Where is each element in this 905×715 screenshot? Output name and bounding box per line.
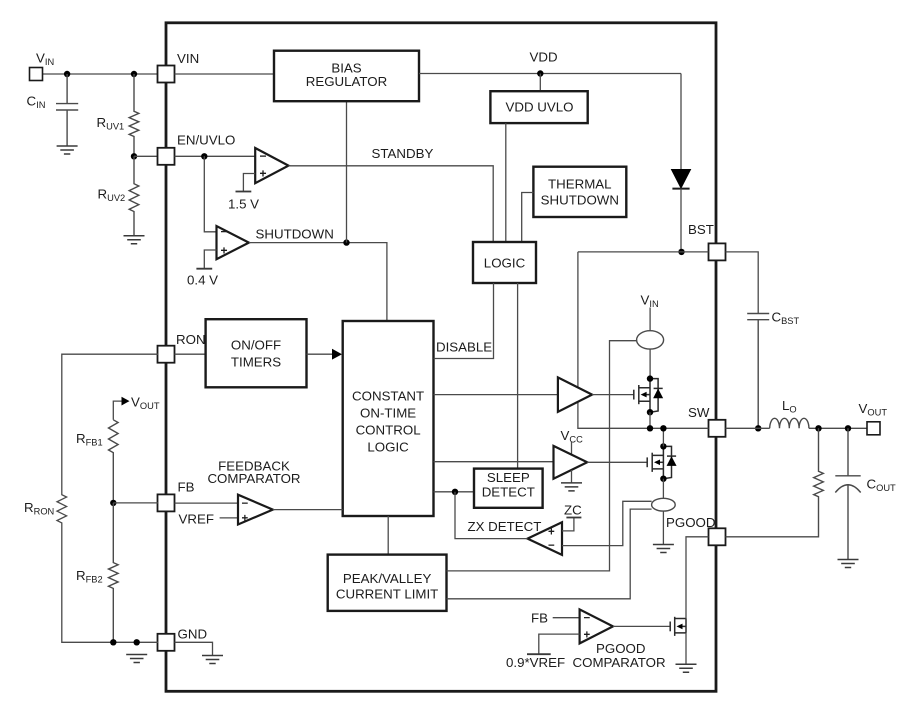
resistor RFB1 [109, 420, 119, 503]
svg-text:SHUTDOWN: SHUTDOWN [541, 193, 619, 208]
svg-text:BST: BST [688, 222, 714, 237]
svg-text:0.4 V: 0.4 V [187, 273, 218, 288]
ground below bottom rail [126, 655, 147, 663]
inductor LO [770, 418, 809, 428]
svg-text:TIMERS: TIMERS [231, 355, 281, 370]
wire peak/valley upper sense [447, 341, 637, 571]
node Q1 source [647, 409, 653, 415]
svg-text:FB: FB [178, 480, 195, 495]
svg-text:ON-TIME: ON-TIME [360, 405, 416, 420]
op-amp U3 feedback comparator [238, 495, 273, 525]
wire GND pin to external ground [175, 642, 213, 655]
wire BST pin to CBST [726, 252, 759, 313]
wire Q1 source to SW [649, 412, 651, 428]
transistor Q2 low-side NMOS [647, 446, 676, 478]
svg-text:SHUTDOWN: SHUTDOWN [256, 227, 334, 242]
wire SW rail [650, 427, 709, 429]
reference 0.9*VREF bar [527, 653, 551, 655]
wire DISABLE from LOGIC to COT [434, 283, 494, 359]
svg-text:−: − [584, 612, 591, 624]
wire VDD to VDD UVLO [539, 74, 541, 92]
svg-text:LOGIC: LOGIC [367, 440, 409, 455]
driver low side triangle [554, 446, 588, 479]
capacitor CBST [747, 314, 769, 429]
wire RON pin to ON/OFF TIMERS [175, 353, 206, 355]
reference 0.4V bar [196, 268, 212, 270]
ground below RUV2 [124, 236, 145, 244]
node CBST SW junction [755, 425, 761, 431]
wire U5 plus input stub [539, 634, 580, 654]
wire STANDBY from U1 to LOGIC [289, 166, 494, 242]
svg-text:VDD: VDD [530, 50, 558, 65]
node sleep zx junction [452, 489, 458, 495]
capacitor COUT [835, 428, 860, 559]
wire Q3 source to ground [685, 633, 687, 664]
ground right of GND pin [202, 656, 223, 664]
ground below Q3 [676, 664, 697, 672]
svg-text:PEAK/VALLEY: PEAK/VALLEY [343, 571, 432, 586]
node bottom rail RFB2 junction [110, 639, 116, 645]
block COT constant on-time control logic [343, 321, 434, 516]
svg-text:+: + [242, 513, 249, 525]
wire VCC stub to driver [571, 442, 573, 455]
terminal VIN external square [30, 68, 43, 81]
diode Q2 body [667, 457, 676, 465]
arrow Q3 body [677, 624, 683, 630]
block BIAS REGULATOR [274, 51, 419, 101]
svg-text:+: + [260, 166, 267, 180]
svg-text:CONSTANT: CONSTANT [352, 388, 424, 403]
wire VIN to sense ellipse [649, 308, 651, 331]
svg-text:−: − [242, 498, 249, 510]
svg-text:−: − [260, 149, 267, 163]
svg-text:THERMAL: THERMAL [548, 177, 612, 192]
svg-text:GND: GND [178, 627, 208, 642]
transistor Q3 PGOOD NMOS [670, 617, 686, 636]
svg-text:COMPARATOR: COMPARATOR [207, 471, 300, 486]
IC boundary box [166, 23, 716, 692]
wire U1 plus input stub [243, 174, 255, 192]
node FB junction [110, 500, 116, 506]
resistor pull-up PGOOD [726, 428, 824, 537]
wire BST down to high-side driver and SW [578, 252, 650, 428]
svg-text:FB: FB [531, 611, 548, 626]
node SW Q2 [660, 425, 666, 431]
node EN junction left [131, 153, 137, 159]
svg-text:−: − [221, 225, 228, 239]
svg-text:+: + [584, 629, 591, 641]
wire SW pin to VOUT [726, 427, 868, 429]
wire COT to low-side driver [434, 461, 554, 463]
svg-text:CONTROL: CONTROL [356, 423, 421, 438]
ground below Q2 [653, 545, 674, 553]
diode D1 wire from VDD [680, 74, 682, 170]
svg-text:LOGIC: LOGIC [484, 256, 526, 271]
svg-text:CURRENT LIMIT: CURRENT LIMIT [336, 586, 438, 601]
wire U3 output to COT [273, 509, 343, 511]
current sense ellipse low side [652, 498, 676, 511]
wire COT to high-side driver [434, 394, 558, 396]
svg-text:SLEEP: SLEEP [487, 470, 530, 485]
wire ellipse to Q1 drain [649, 349, 651, 379]
op-amp U5 PGOOD comparator [580, 609, 613, 643]
svg-text:STANDBY: STANDBY [372, 146, 434, 161]
arrow Q1 body [641, 392, 647, 398]
pin VIN [158, 66, 175, 83]
wire peak/valley lower sense [447, 509, 652, 599]
wire Q3 drain to PGOOD pin [686, 537, 709, 619]
node COUT junction [845, 425, 851, 431]
block LOGIC [473, 242, 536, 283]
node VDD junction [537, 70, 543, 76]
wire EN pin to comparator U1 [175, 155, 256, 157]
svg-text:VREF: VREF [179, 512, 214, 527]
svg-text:+: + [548, 527, 555, 539]
node SHUTDOWN bias junction [343, 239, 349, 245]
wire FB junction to pin [113, 502, 158, 504]
svg-text:PGOOD: PGOOD [596, 641, 646, 656]
svg-text:VDD UVLO: VDD UVLO [506, 100, 574, 115]
pin FB [158, 494, 175, 511]
svg-text:ZX DETECT: ZX DETECT [468, 519, 542, 534]
wire FB pin to comparator U3 [175, 502, 239, 504]
pin GND [158, 634, 175, 651]
wire VIN external [42, 73, 159, 75]
node CIN junction [64, 71, 70, 77]
wire EN junction to pin [134, 155, 158, 157]
transistor Q1 high-side NMOS [634, 379, 663, 413]
pin PGOOD [709, 528, 726, 545]
driver high side triangle [558, 377, 592, 411]
svg-text:REGULATOR: REGULATOR [306, 74, 388, 89]
svg-text:COMPARATOR: COMPARATOR [573, 655, 666, 670]
wire VIN pin to BIAS REGULATOR [175, 73, 275, 75]
node LO output [815, 425, 821, 431]
wire VDD rail [419, 73, 681, 75]
node SW Q1 [647, 425, 653, 431]
svg-text:DISABLE: DISABLE [436, 340, 492, 355]
wire SW to Q2 drain [662, 428, 664, 446]
resistor RUV1 [129, 74, 139, 156]
node EN comparator junction [201, 153, 207, 159]
op-amp U1 standby comparator [255, 148, 288, 183]
diode D1 [672, 170, 691, 252]
wire RRON from RON pin [57, 354, 158, 642]
wire ZX minus input from sense [562, 501, 652, 545]
label FEEDBACK COMPARATOR [207, 459, 300, 487]
op-amp U2 shutdown comparator [217, 225, 249, 260]
pin BST [709, 243, 726, 260]
resistor RFB2 [109, 503, 119, 642]
block SLEEP DETECT [474, 469, 543, 508]
block THERMAL SHUTDOWN [533, 167, 626, 217]
svg-text:EN/UVLO: EN/UVLO [177, 133, 235, 148]
wire U2 plus input stub [204, 250, 216, 269]
svg-text:DETECT: DETECT [482, 485, 535, 500]
diode Q1 body [654, 389, 663, 397]
node RUV1 top junction [131, 71, 137, 77]
capacitor CIN [56, 74, 78, 146]
block PEAK/VALLEY CURRENT LIMIT [328, 555, 447, 611]
svg-text:−: − [548, 540, 555, 552]
node BST junction [678, 249, 684, 255]
op-amp U4 ZX DETECT comparator [528, 522, 563, 555]
wire THERMAL SHUTDOWN to LOGIC [522, 193, 534, 243]
wire VOUT arrow branch [113, 397, 129, 420]
svg-text:+: + [221, 243, 228, 257]
wire ZC stub [562, 518, 574, 531]
block ON/OFF TIMERS [206, 319, 307, 387]
wire driver ground stub [571, 470, 573, 483]
wire BIAS REGULATOR down to shutdown node [346, 101, 348, 242]
ground below COUT [838, 560, 859, 568]
arrow Q2 body [654, 460, 660, 466]
pin EN/UVLO [158, 148, 175, 165]
svg-text:0.9*VREF: 0.9*VREF [506, 655, 565, 670]
block VDD UVLO [490, 91, 587, 123]
ground below low driver [561, 483, 582, 491]
current sense ellipse high side [637, 331, 664, 349]
wire FB stub to U5 [553, 617, 580, 619]
pin RON [158, 346, 175, 363]
svg-text:ON/OFF: ON/OFF [231, 338, 281, 353]
svg-text:VIN: VIN [177, 51, 199, 66]
svg-text:SW: SW [688, 405, 710, 420]
wire BST rail to pin [578, 251, 709, 253]
node Q2 source [660, 476, 666, 482]
wire EN junction down to comparator U2 minus [204, 156, 216, 232]
resistor RUV2 [129, 156, 139, 235]
wire Q2 source to sense ellipse [662, 479, 664, 499]
svg-text:1.5 V: 1.5 V [228, 197, 259, 212]
wire driver to Q2 gate [587, 461, 647, 463]
svg-text:RON: RON [176, 332, 206, 347]
wire ellipse to ground [662, 511, 664, 544]
reference 1.5V bar [236, 191, 252, 193]
wire U5 output to Q3 gate [613, 625, 670, 627]
terminal VOUT square [867, 422, 880, 435]
node bottom rail ground junction [134, 639, 140, 645]
wire VDD UVLO to LOGIC [505, 123, 507, 242]
wire COT to PEAK/VALLEY [387, 516, 389, 555]
wire LOGIC to SLEEP DETECT [517, 283, 519, 469]
svg-text:PGOOD: PGOOD [666, 515, 716, 530]
node Q2 drain [660, 443, 666, 449]
wire COT to SLEEP DETECT [434, 491, 475, 493]
wire driver to Q1 gate [592, 394, 634, 396]
ground below CIN [57, 146, 78, 154]
svg-text:ZC: ZC [564, 503, 582, 518]
reference ZC bar [566, 517, 581, 519]
wire arrow TIMERS to COT [307, 349, 343, 360]
pin SW [709, 420, 726, 437]
node Q1 drain [647, 375, 653, 381]
wire ZX output to sleep junction [455, 492, 528, 539]
wire SHUTDOWN from U2 to COT logic [249, 243, 387, 321]
wire VREF stub [220, 517, 238, 519]
